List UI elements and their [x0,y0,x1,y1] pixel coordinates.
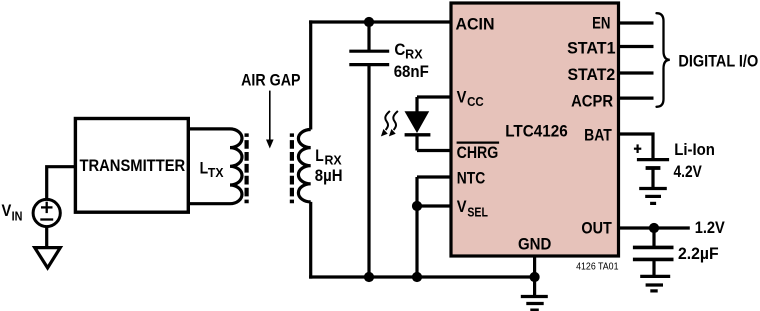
wire BAT pin stub [619,134,654,160]
ground battery [639,189,667,204]
svg-text:ACIN: ACIN [456,14,495,33]
LRX core dashed line [290,133,294,203]
svg-text:8µH: 8µH [315,166,343,185]
wire CRX bottom lead [367,65,370,277]
wire CRX top lead [367,22,370,51]
junction NTC/VSEL [412,201,422,211]
wire left rail bottom (LRX to bottom rail) [309,202,312,279]
battery BT1 Li-Ion [637,160,669,189]
capacitor CRX [349,51,389,64]
junction bottom rail / CRX [364,272,374,282]
svg-text:SEL: SEL [467,206,488,220]
svg-text:C: C [394,40,405,59]
wire bottom rail [309,275,534,278]
svg-text:AIR GAP: AIR GAP [241,70,300,89]
junction GND node [530,272,540,282]
wire VSEL pin stub [417,204,451,207]
ground (open triangle) below VIN [35,248,61,268]
wire STAT2 pin stub [619,71,654,74]
svg-text:LTC4126: LTC4126 [505,121,568,140]
wire CHRG pin stub [417,149,451,152]
inductor LRX coil [298,130,310,202]
wire EN pin stub [619,21,654,24]
svg-text:TX: TX [208,166,224,180]
LED D1 (charge indicator) [405,111,431,135]
svg-text:4126 TA01: 4126 TA01 [576,262,618,273]
svg-text:L: L [200,158,209,177]
svg-text:GND: GND [518,235,551,254]
pin label VCC [457,88,484,110]
svg-text:DIGITAL I/O: DIGITAL I/O [678,52,758,70]
svg-text:4.2V: 4.2V [674,162,703,181]
label LRX [315,146,342,167]
ground COUT [640,276,670,291]
pin label VSEL [457,197,488,220]
wire capacitor to ground [652,259,655,276]
IC U1 LTC4126 body [451,3,619,256]
brace digital I/O [657,13,670,107]
wire VIN to ground [45,227,48,248]
wire VCC to LED anode [415,97,418,112]
wire top rail to ACIN [309,20,451,23]
svg-text:2.2µF: 2.2µF [678,244,719,263]
transmitter box [75,119,188,213]
svg-text:V: V [2,201,12,220]
svg-text:NTC: NTC [457,168,486,187]
svg-text:68nF: 68nF [394,62,429,81]
voltage source VIN [33,199,60,226]
junction OUT node [649,223,659,233]
svg-text:EN: EN [592,14,610,33]
ground main [521,297,548,311]
wire STAT1 pin stub [619,45,654,48]
svg-text:TRANSMITTER: TRANSMITTER [80,157,186,175]
wire OUT node to capacitor [652,228,655,247]
svg-text:STAT2: STAT2 [568,65,616,84]
wire NTC pin stub [417,175,451,178]
wire left rail top (LRX to top rail) [309,20,312,129]
wire VIN to transmitter [47,167,77,200]
inductor LTX coil [230,129,242,204]
capacitor COUT 2.2uF [633,247,674,259]
wire LED cathode to CHRG [415,135,418,151]
svg-text:V: V [457,197,467,216]
svg-text:RX: RX [405,48,423,62]
svg-text:L: L [315,146,324,165]
svg-text:IN: IN [12,210,23,224]
wire ACPR pin stub [619,96,654,99]
label CRX [394,40,423,61]
label LTX [200,158,225,180]
wire transmitter to LTX bottom [188,202,230,205]
LED light arrows [381,111,398,136]
wire NTC branch down to bottom rail [415,177,418,277]
svg-text:CHRG: CHRG [457,143,499,162]
svg-text:OUT: OUT [581,219,612,238]
junction top rail / CRX [364,17,374,27]
wire OUT pin stub [619,226,690,229]
label VIN [2,201,23,224]
LTX core dashed line [245,133,249,203]
svg-text:BAT: BAT [584,125,612,144]
svg-text:ACPR: ACPR [571,91,613,110]
pin label CHRG (active low) [457,143,500,162]
svg-text:Li-Ion: Li-Ion [674,140,715,159]
svg-text:1.2V: 1.2V [695,218,726,237]
svg-text:STAT1: STAT1 [567,39,615,58]
air gap arrow [266,91,274,149]
battery plus sign [634,144,641,153]
svg-text:CC: CC [467,95,484,109]
wire GND pin to bottom rail [533,256,536,296]
wire VCC pin stub [417,95,451,98]
svg-text:V: V [457,88,467,107]
junction bottom rail / VSEL branch [412,272,422,282]
wire transmitter to LTX top [188,127,230,130]
